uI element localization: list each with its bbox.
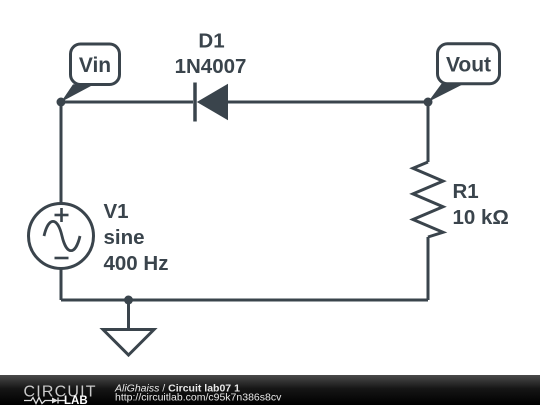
svg-text:D1: D1: [198, 30, 224, 53]
wire: left vertical lower (V1 bottom terminal to bottom rail): [60, 268, 63, 300]
svg-text:R1: R1: [453, 180, 479, 203]
diode D1: [195, 83, 228, 122]
svg-text:Vout: Vout: [446, 54, 491, 77]
wire: bottom rail: [61, 299, 428, 302]
voltage source V1: [29, 204, 94, 269]
net flag Vin: [61, 44, 120, 102]
CircuitLab logo wordmark LAB: [64, 395, 88, 405]
CircuitLab logo schematic glyph (resistor + diode): [24, 398, 66, 404]
net flag Vout: [428, 44, 500, 102]
svg-text:400 Hz: 400 Hz: [104, 252, 169, 275]
ground: [103, 330, 154, 356]
node Vin junction: [57, 98, 66, 107]
node Vout junction: [424, 98, 433, 107]
wire: top left segment (Vin node to diode cathode bar): [61, 101, 193, 104]
svg-text:Vin: Vin: [79, 54, 111, 77]
wire: ground stub: [127, 300, 130, 329]
wire: top right segment (diode anode to Vout node): [228, 101, 428, 104]
svg-text:sine: sine: [104, 226, 145, 249]
label D1: [198, 30, 224, 53]
svg-text:10 kΩ: 10 kΩ: [453, 206, 509, 229]
svg-text:http://circuitlab.com/c95k7n38: http://circuitlab.com/c95k7n386s8cv: [115, 392, 282, 404]
label R1: [453, 180, 479, 203]
attribution line: AliGhaiss / Circuit lab07 1: [114, 383, 240, 395]
svg-text:LAB: LAB: [64, 395, 88, 405]
url line: [115, 392, 282, 404]
wire: right vertical upper (Vout node to R1 top): [427, 102, 430, 162]
svg-text:1N4007: 1N4007: [175, 55, 247, 78]
CircuitLab logo wordmark CIRCUIT: [24, 384, 97, 401]
value 400 Hz: [104, 252, 169, 275]
svg-text:V1: V1: [104, 200, 129, 223]
wire: left vertical upper (Vin node down to V1 top terminal): [60, 102, 63, 204]
resistor R1: [413, 162, 443, 237]
label V1: [104, 200, 129, 223]
value 10 kOhm: [453, 206, 509, 229]
footer bar: [0, 375, 540, 405]
value 1N4007: [175, 55, 247, 78]
value sine: [104, 226, 145, 249]
node ground junction: [124, 296, 133, 305]
wire: right vertical lower (R1 bottom to bottom rail): [427, 237, 430, 300]
